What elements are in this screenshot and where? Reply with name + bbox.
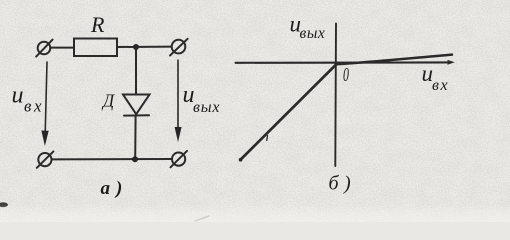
svg-text:а): а) xyxy=(101,178,129,199)
axis arrowhead xyxy=(448,60,455,65)
terminal BL (input bottom) xyxy=(37,151,54,167)
label u_vyx (right) xyxy=(183,82,221,116)
svg-text:вых: вых xyxy=(193,99,220,116)
u_vx arrow (input voltage) xyxy=(41,62,48,146)
svg-text:вых: вых xyxy=(300,25,326,42)
light paper strip at bottom edge xyxy=(0,204,510,222)
transfer curve: steep branch xyxy=(240,63,337,160)
terminal TL (input top) xyxy=(36,40,52,57)
resistor R xyxy=(74,39,117,57)
axis label u_vx (right) xyxy=(422,61,450,94)
axis label u_vyx (top) xyxy=(290,12,326,43)
small tick on steep branch xyxy=(266,136,269,141)
wire: diode to node B xyxy=(134,116,136,159)
scan blob at left edge xyxy=(0,202,8,207)
svg-text:б): б) xyxy=(329,173,357,195)
terminal TR (output top) xyxy=(170,39,188,56)
wire: bottom rail xyxy=(52,158,172,160)
svg-text:R: R xyxy=(90,12,105,37)
faint scratch bottom xyxy=(195,216,209,221)
origin knot xyxy=(335,61,339,65)
graph: horizontal axis u_vx xyxy=(236,61,451,63)
transfer curve: flat branch xyxy=(337,55,452,65)
wire: resistor to node A to terminal TR xyxy=(117,46,172,48)
wire: node A down to diode xyxy=(135,47,137,95)
svg-text:0: 0 xyxy=(343,62,349,85)
wire: TL terminal to resistor R xyxy=(51,47,75,49)
curve end blob xyxy=(239,158,243,162)
node B (bottom junction dot) xyxy=(132,156,138,162)
node A (top junction dot) xyxy=(133,44,139,50)
u_vyx arrow (output voltage) xyxy=(175,60,182,142)
svg-text:u: u xyxy=(12,83,24,109)
svg-text:вх: вх xyxy=(432,77,449,94)
svg-text:Д: Д xyxy=(101,91,115,111)
terminal BR (output bottom) xyxy=(171,151,188,167)
svg-text:вх: вх xyxy=(24,97,44,116)
diode Д xyxy=(123,95,150,116)
label u_vx (left) xyxy=(12,83,45,116)
graph: vertical axis u_vyx xyxy=(334,24,337,167)
